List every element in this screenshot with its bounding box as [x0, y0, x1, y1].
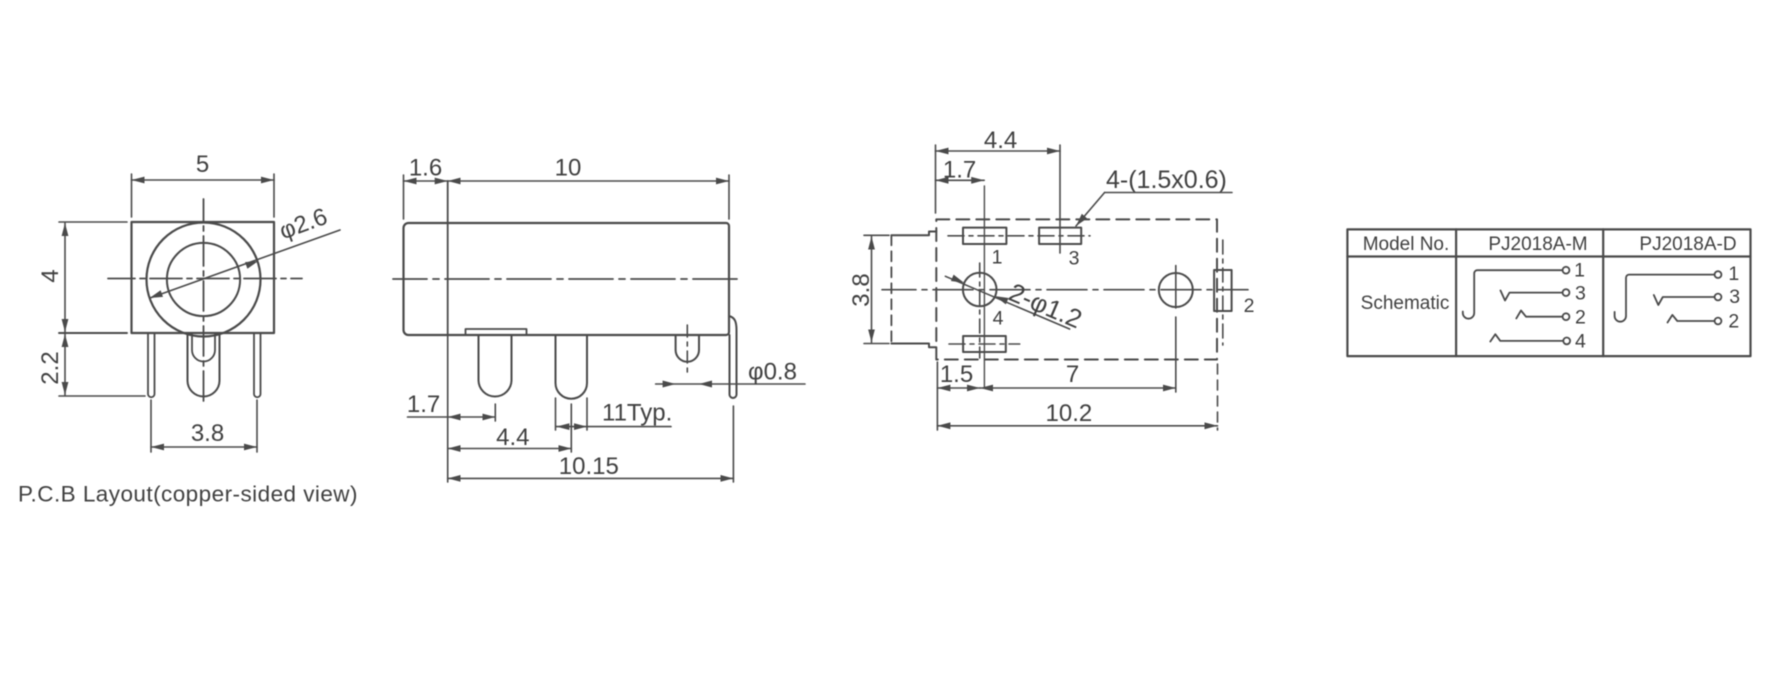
pad 4	[963, 336, 1006, 352]
ear top edge	[891, 232, 936, 236]
hole 4	[963, 273, 997, 307]
svg-text:Schematic: Schematic	[1361, 293, 1450, 314]
ear bottom edge	[891, 344, 936, 348]
svg-text:4: 4	[37, 269, 64, 282]
M terminal 3 contact	[1501, 291, 1563, 301]
column divider 1	[1455, 229, 1457, 356]
pad4 centerline	[949, 343, 1020, 345]
svg-text:Model No.: Model No.	[1363, 234, 1450, 255]
leader arrow upper-left	[951, 275, 964, 283]
dim 4/2.2 shared extension	[59, 332, 127, 334]
hole4 vertical dashdot	[979, 263, 981, 358]
pad 3	[1039, 228, 1081, 244]
M terminal 2 circle	[1563, 313, 1570, 320]
dim 11Typ line	[556, 426, 587, 428]
callout arrow	[1076, 214, 1087, 226]
left leg pin	[148, 333, 155, 397]
svg-text:3.8: 3.8	[191, 420, 224, 447]
bottom dim extensions	[936, 362, 938, 430]
dim 10.15 line	[448, 477, 734, 479]
dim 3.8 extension lines	[150, 400, 152, 452]
svg-text:4-(1.5x0.6): 4-(1.5x0.6)	[1106, 166, 1227, 194]
dim 10 line	[448, 180, 729, 182]
dim 5 line	[132, 179, 275, 181]
D terminal 1 circle	[1715, 271, 1722, 278]
svg-text:P.C.B Layout(copper-sided view: P.C.B Layout(copper-sided view)	[18, 482, 358, 507]
svg-text:3: 3	[1069, 248, 1080, 270]
leader 2-phi1.2 line	[945, 276, 1069, 329]
D terminal 2 contact	[1668, 315, 1715, 323]
ear left dashed edge	[890, 235, 892, 343]
dim 4.4 top line	[936, 150, 1061, 152]
top dim extension left	[403, 175, 405, 219]
pin1	[479, 335, 512, 397]
D terminal 2 circle	[1715, 318, 1722, 325]
callout leader	[1076, 193, 1105, 227]
svg-text:φ0.8: φ0.8	[748, 359, 797, 386]
svg-text:3: 3	[1575, 282, 1586, 304]
svg-text:10.15: 10.15	[559, 453, 619, 480]
svg-text:PJ2018A-D: PJ2018A-D	[1639, 234, 1736, 255]
svg-text:1.5: 1.5	[940, 361, 973, 388]
svg-text:4: 4	[993, 308, 1004, 330]
dim 1.5 line	[937, 387, 980, 389]
outer barrel circle	[147, 223, 261, 337]
svg-text:1.6: 1.6	[409, 155, 442, 182]
hole right vertical line	[1175, 266, 1177, 308]
pin1 center tick	[494, 404, 496, 421]
D terminal 3 circle	[1715, 294, 1722, 301]
svg-text:3.8: 3.8	[848, 273, 875, 306]
dim 4.4 top: extensions	[935, 145, 937, 213]
svg-text:2: 2	[1575, 307, 1586, 329]
phi 2.6 arrow lower-left	[150, 290, 163, 298]
svg-text:2.2: 2.2	[37, 351, 64, 384]
inner jack hole circle	[167, 243, 240, 316]
hole right	[1159, 273, 1193, 307]
dim 5 extension lines	[131, 174, 133, 217]
dim 1.7 line	[448, 416, 496, 418]
front body rectangle	[132, 222, 275, 333]
pad 2	[1214, 270, 1232, 311]
dim 7 line	[980, 387, 1176, 389]
horizontal centerline	[393, 278, 737, 280]
M terminal 4 circle	[1563, 338, 1570, 345]
dim 3.8 line	[151, 446, 257, 448]
svg-text:1: 1	[1728, 263, 1739, 285]
pcb dashed outline	[936, 219, 1217, 359]
M terminal 1 circle	[1563, 267, 1570, 274]
pin2	[556, 335, 588, 399]
horizontal centerline	[108, 278, 302, 280]
dim 3.8 line	[871, 237, 873, 343]
dim 11Typ tail	[587, 426, 671, 428]
pads 1-3 centerline	[948, 235, 1090, 237]
dim phi0.8 line	[656, 383, 805, 385]
pin2 side extensions	[555, 398, 557, 430]
svg-text:1: 1	[1574, 260, 1585, 282]
phi 2.6 diameter line	[150, 230, 340, 298]
dim 1.6 line	[404, 180, 448, 182]
svg-text:2: 2	[1728, 310, 1739, 332]
header divider	[1347, 255, 1750, 257]
svg-text:3: 3	[1729, 286, 1740, 308]
dim phi0.8 arrow left	[663, 381, 676, 388]
dim 4 line	[64, 223, 66, 332]
leader arrow lower-right	[995, 296, 1008, 304]
svg-text:10: 10	[555, 155, 582, 182]
center pin outer	[188, 333, 220, 397]
vertical centerline	[203, 199, 205, 406]
body division line	[447, 181, 449, 335]
side body outline	[404, 223, 730, 335]
M terminal 2 contact	[1516, 311, 1562, 319]
pin1 tab	[466, 329, 527, 335]
callout underline	[1105, 192, 1232, 194]
center pin inner	[192, 333, 215, 362]
right leg pin	[254, 333, 261, 397]
pad2 vertical dashdot	[1222, 240, 1224, 345]
column divider 2	[1602, 229, 1604, 356]
dim phi0.8 arrow right	[699, 381, 712, 388]
svg-text:4.4: 4.4	[496, 424, 529, 451]
svg-text:10.2: 10.2	[1046, 400, 1093, 427]
svg-text:1: 1	[992, 247, 1003, 269]
D sleeve J contact	[1615, 275, 1714, 322]
D terminal 3 contact	[1654, 295, 1714, 305]
svg-text:1.7: 1.7	[943, 157, 976, 184]
dim 2.2 extension bottom	[59, 395, 145, 397]
svg-text:4: 4	[1575, 331, 1586, 353]
dim 1.7 tail	[408, 416, 448, 418]
svg-text:5: 5	[196, 151, 209, 178]
top dim extension right	[728, 175, 730, 219]
svg-text:2-φ1.2: 2-φ1.2	[1005, 277, 1087, 334]
M terminal 4 contact	[1490, 334, 1563, 341]
division extension down	[447, 335, 449, 482]
svg-text:φ2.6: φ2.6	[276, 203, 331, 245]
svg-text:4.4: 4.4	[984, 127, 1017, 154]
M terminal 3 circle	[1563, 289, 1570, 296]
pin3 small	[676, 335, 699, 362]
table outer border	[1347, 229, 1750, 356]
svg-text:PJ2018A-M: PJ2018A-M	[1488, 234, 1587, 255]
dim 3.8 extensions	[864, 234, 889, 236]
pin2 center extension	[570, 404, 572, 452]
bent pin extension	[732, 406, 734, 482]
M sleeve J contact	[1463, 270, 1563, 318]
pad 1	[963, 228, 1006, 244]
dim 4 extension top	[59, 221, 127, 223]
pad1 vertical centerline	[983, 186, 985, 388]
dim 2.2 line	[64, 334, 66, 395]
svg-text:2: 2	[1244, 295, 1255, 317]
svg-text:1.7: 1.7	[407, 391, 440, 418]
dim 1.7 top line	[936, 179, 985, 181]
main horizontal centerline	[882, 289, 1248, 291]
svg-text:11Typ.: 11Typ.	[602, 400, 672, 427]
pin3 centerline	[686, 325, 688, 372]
bent pin	[729, 316, 737, 398]
dim 10.2 line	[937, 425, 1217, 427]
phi 2.6 arrow upper-right	[245, 261, 258, 269]
svg-text:7: 7	[1066, 361, 1079, 388]
dim 4.4 line	[448, 448, 572, 450]
